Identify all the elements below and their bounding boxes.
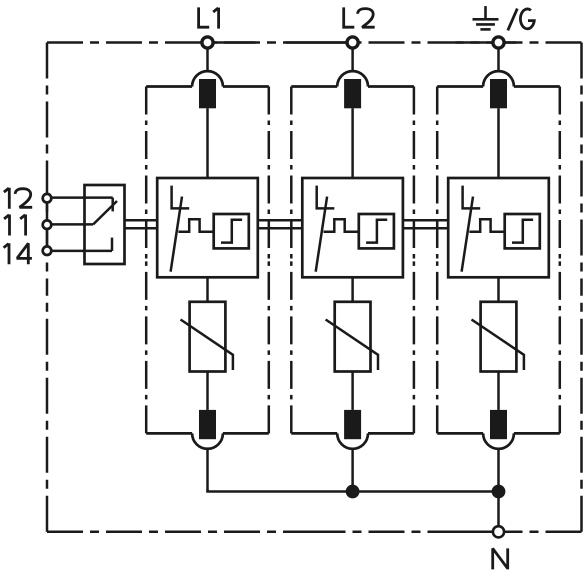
trigger/monitoring box with step symbol xyxy=(214,214,249,248)
disconnection device element (black, bottom, branch L1) xyxy=(199,410,216,439)
disconnect switch contact (branch G) xyxy=(462,186,481,272)
enclosure dash-dot border xyxy=(47,43,582,532)
thermal disconnector arc (bottom, branch L1) xyxy=(192,433,223,448)
wire bottom border solid segment at terminal N xyxy=(460,531,493,534)
contact 14 fixed contact xyxy=(111,238,114,251)
terminal L2 xyxy=(347,37,358,48)
label 11 xyxy=(4,215,25,236)
terminal 11 xyxy=(43,220,52,229)
wire varistor to bottom disconnector xyxy=(206,372,209,410)
wire SPD module to varistor xyxy=(497,277,500,302)
label 12 xyxy=(4,188,32,209)
trigger/monitoring box with step symbol xyxy=(505,214,540,248)
wire terminal 12 to contact xyxy=(47,196,113,199)
wire varistor to bottom disconnector xyxy=(497,372,500,410)
label 14 xyxy=(4,243,32,264)
mechanical linkage double line: branch L2 to branch G xyxy=(403,220,448,228)
surge impulse (square wave) symbol xyxy=(324,219,359,232)
disconnection device element (black, top, branch L2) xyxy=(344,79,361,108)
varistor (branch L1) xyxy=(181,302,233,372)
wire top disconnector to SPD module xyxy=(497,108,500,178)
thermal disconnector arc (top, branch L2) xyxy=(337,71,368,86)
wire bottom disconnector to N bus xyxy=(351,448,354,491)
branch G protection-path dash-dot box xyxy=(437,87,560,434)
thermal disconnector arc (top, branch L1) xyxy=(192,71,223,86)
surge impulse (square wave) symbol xyxy=(178,219,213,232)
terminal L1 xyxy=(202,37,213,48)
terminal 14 xyxy=(43,246,52,255)
disconnect switch contact (branch L1) xyxy=(171,186,190,272)
terminal 12 xyxy=(43,194,52,203)
SPD switching module box (branch G) xyxy=(448,178,549,277)
wire terminal L2 to top disconnector xyxy=(351,43,354,72)
disconnect switch contact (branch L2) xyxy=(316,186,335,272)
SPD switching module box (branch L2) xyxy=(302,178,403,277)
earth ground symbol xyxy=(473,6,499,29)
label /G xyxy=(508,9,535,31)
disconnection device element (black, bottom, branch G) xyxy=(490,410,507,439)
wire varistor to bottom disconnector xyxy=(351,372,354,410)
disconnection device element (black, top, branch L1) xyxy=(199,79,216,108)
surge impulse (square wave) symbol xyxy=(469,219,504,232)
junction dot (G branch / N bus) xyxy=(492,485,506,499)
thermal disconnector arc (bottom, branch G) xyxy=(483,433,514,448)
wire terminal 14 to contact xyxy=(47,250,112,253)
label L2 xyxy=(344,7,375,27)
wire top disconnector to SPD module xyxy=(351,108,354,178)
trigger/monitoring box with step symbol xyxy=(359,214,394,248)
thermal disconnector arc (bottom, branch L2) xyxy=(337,433,368,448)
disconnection device element (black, bottom, branch L2) xyxy=(344,410,361,439)
wire linking terminals 12-11-14 xyxy=(46,193,49,256)
terminal G xyxy=(493,37,504,48)
label L1 xyxy=(199,7,219,28)
label N xyxy=(493,548,508,569)
wire top bus solid segments at terminals xyxy=(208,41,517,44)
mechanical linkage double line: branch L1 to branch L2 xyxy=(258,220,303,228)
varistor (branch L2) xyxy=(326,302,378,372)
wire N bus to terminal N xyxy=(497,492,500,532)
N bus wire xyxy=(208,490,499,492)
thermal disconnector arc (top, branch G) xyxy=(483,71,514,86)
wire terminal L1 to top disconnector xyxy=(206,43,209,72)
remote signalling changeover contact box xyxy=(85,185,125,264)
contact 12 fixed contact xyxy=(111,198,114,212)
SPD switching module box (branch L1) xyxy=(157,178,258,277)
branch L1 protection-path dash-dot box xyxy=(146,87,269,434)
disconnection device element (black, top, branch G) xyxy=(490,79,507,108)
junction dot (L2 branch / N bus) xyxy=(346,485,360,499)
wire bottom disconnector to N bus xyxy=(497,448,500,491)
wire terminal G to top disconnector xyxy=(497,43,500,72)
wire top disconnector to SPD module xyxy=(206,108,209,178)
varistor (branch G) xyxy=(472,302,524,372)
wire bottom disconnector to N bus xyxy=(206,448,209,491)
branch L2 protection-path dash-dot box xyxy=(291,87,414,434)
changeover switch blade (common 11) xyxy=(93,201,117,224)
wire terminal 11 to contact xyxy=(47,223,93,226)
terminal N xyxy=(493,526,504,537)
mechanical linkage double line: remote contact to branch L1 xyxy=(125,220,158,228)
wire SPD module to varistor xyxy=(206,277,209,302)
wire SPD module to varistor xyxy=(351,277,354,302)
